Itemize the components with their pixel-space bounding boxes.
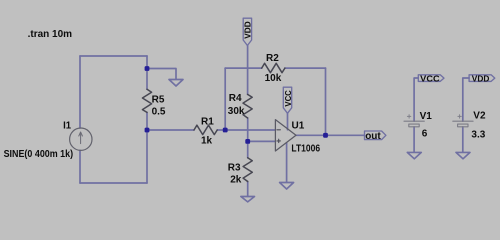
junction inverting node at R1/R2 leg: [223, 128, 228, 133]
svg-text:10k: 10k: [265, 73, 282, 84]
wire ground stub right of R5 column: [147, 69, 176, 80]
wire VCC stem into op-amp top: [287, 113, 289, 130]
wire I1 bottom down: [79, 150, 81, 183]
wire V2 top from flag corner to battery: [463, 78, 469, 121]
svg-text:I1: I1: [63, 121, 71, 132]
wire feedback top to R2 left: [225, 67, 262, 69]
svg-text:2k: 2k: [230, 174, 242, 185]
svg-text:.tran 10m: .tran 10m: [28, 29, 73, 40]
svg-text:30k: 30k: [228, 106, 245, 117]
wire op-amp bottom power stem to ground: [286, 143, 288, 182]
ground symbol below op-amp: [280, 183, 294, 190]
ground symbol near R5: [169, 80, 183, 87]
svg-text:out: out: [365, 131, 381, 142]
junction ground tap on R5 column: [145, 66, 150, 71]
wire R5 bottom lead to node A: [146, 112, 148, 130]
resistor R4 zigzag: [243, 94, 252, 118]
resistor R2 zigzag: [262, 63, 285, 72]
voltage source V1 battery plates: [404, 121, 424, 127]
voltage source V2 battery plates: [453, 121, 473, 127]
net flag VCC horizontal (above V1): [418, 75, 444, 82]
svg-text:U1: U1: [292, 121, 305, 132]
junction output node: [323, 133, 328, 138]
wire left vertical down to I1 top: [79, 56, 81, 128]
wire top-left horizontal from I1 top corner to R5 column: [80, 55, 147, 57]
svg-text:6: 6: [422, 129, 428, 140]
svg-text:VCC: VCC: [283, 90, 293, 106]
svg-text:0.5: 0.5: [152, 106, 166, 117]
op-amp U1 minus input mark: [277, 129, 280, 131]
svg-text:R2: R2: [266, 53, 279, 64]
junction node A (R5/R1/loop): [145, 128, 150, 133]
svg-text:R5: R5: [152, 95, 165, 106]
svg-text:VCC: VCC: [420, 73, 439, 83]
wire V1 bottom to ground: [413, 127, 415, 152]
voltage source V1 plus sign: [407, 115, 410, 118]
output port flag out: [365, 131, 386, 140]
svg-text:LT1006: LT1006: [291, 144, 320, 155]
op-amp U1 plus input mark: [277, 139, 280, 142]
svg-text:1k: 1k: [201, 135, 213, 146]
resistor R1 zigzag: [194, 125, 217, 134]
wire VDD stem and R4 top lead: [247, 46, 249, 95]
resistor R3 zigzag: [243, 158, 252, 182]
wire right vertical up to node A: [146, 130, 148, 183]
net flag VDD horizontal (above V2): [469, 75, 495, 82]
svg-text:VDD: VDD: [472, 73, 490, 83]
svg-text:R1: R1: [201, 116, 214, 127]
wire bottom horizontal: [80, 182, 147, 184]
wire node A to R1 left: [147, 129, 194, 131]
svg-text:VDD: VDD: [243, 21, 253, 38]
svg-text:R4: R4: [229, 93, 242, 104]
ground symbol below V2: [456, 152, 470, 158]
wire op-amp output to out flag: [296, 134, 365, 136]
current source I1 circle: [70, 128, 92, 150]
wire R2 right to corner: [285, 67, 326, 69]
svg-text:3.3: 3.3: [471, 129, 485, 140]
net flag VDD vertical (top middle): [243, 18, 251, 45]
svg-text:R3: R3: [228, 162, 241, 173]
svg-text:SINE(0 400m 1k): SINE(0 400m 1k): [4, 149, 74, 160]
voltage source V2 plus sign: [458, 115, 461, 118]
current source I1 arrow: [79, 132, 83, 144]
wire feedback left leg up from inverting node: [224, 68, 226, 130]
wire V2 bottom to ground: [462, 127, 464, 152]
wire R1 right to op-amp inverting input: [217, 129, 275, 131]
junction node B non-inverting divider: [245, 139, 250, 144]
ground symbol below V1: [407, 152, 421, 158]
net flag VCC vertical (above op-amp): [283, 87, 291, 113]
wire R4 bottom lead to node B and R3 top lead: [247, 118, 249, 158]
wire R3 bottom lead to ground: [247, 182, 249, 197]
svg-text:V1: V1: [420, 111, 433, 122]
wire V1 top from flag corner to battery: [414, 78, 418, 121]
wire node B to op-amp non-inverting input: [248, 140, 276, 142]
ground symbol below R3: [241, 197, 255, 202]
svg-text:V2: V2: [473, 110, 486, 121]
op-amp U1 triangle: [275, 120, 296, 151]
resistor R5 zigzag: [142, 89, 151, 112]
wire R5 column from top corner through ground tap: [146, 56, 148, 89]
wire feedback right leg down to output node: [325, 68, 327, 135]
